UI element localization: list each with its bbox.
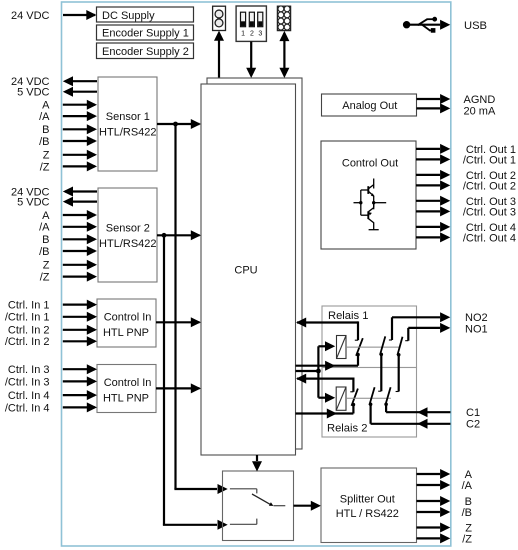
input block U5 Sensor 1 HTL/RS422: [98, 77, 157, 171]
svg-text:Analog Out: Analog Out: [342, 100, 397, 112]
label Ctrl. In 2: [8, 325, 50, 337]
input block U6 Sensor 2 HTL/RS422: [98, 188, 157, 282]
label Sensor2 Z: [43, 260, 50, 272]
CPU block U4: [201, 84, 296, 455]
node Sensor1 bus junction: [173, 122, 178, 127]
switch S2 blade: [252, 494, 285, 506]
svg-text:/B: /B: [39, 246, 49, 258]
switch block S2 signal changeover: [223, 471, 294, 541]
svg-text:/Ctrl. Out 4: /Ctrl. Out 4: [463, 232, 516, 244]
svg-text:NO1: NO1: [465, 323, 488, 335]
wire AGND output: [417, 94, 451, 104]
label Sensor2 24 VDC: [11, 186, 50, 198]
power block U1 DC Supply: [97, 7, 194, 22]
label 24 VDC top: [11, 10, 50, 22]
contact K1 drive blade: [356, 338, 363, 356]
label /Ctrl. In 4: [5, 402, 50, 414]
connector J1 2-pin: [213, 6, 226, 30]
wire K1 coil-contact link: [346, 346, 400, 348]
svg-text:CPU: CPU: [234, 265, 257, 277]
wire CPU to K1 contact (feedback): [296, 318, 358, 341]
wire Control In 1/2 to CPU: [156, 317, 201, 327]
wires Control In 3/4 inputs: [63, 364, 97, 412]
label Splitter /A: [462, 480, 473, 492]
label Sensor2 /Z: [40, 272, 50, 284]
svg-text:3: 3: [258, 31, 262, 38]
svg-text:/Ctrl. Out 1: /Ctrl. Out 1: [463, 154, 516, 166]
svg-text:USB: USB: [464, 20, 487, 32]
svg-text:Control Out: Control Out: [342, 157, 398, 169]
relay block K1 Relais 1: [322, 306, 417, 368]
label /Ctrl. Out 2: [463, 180, 516, 192]
switch S2 upper contact: [230, 489, 257, 494]
svg-text:5 VDC: 5 VDC: [17, 197, 49, 209]
wire 24VDC input to DC Supply: [63, 10, 97, 20]
label Ctrl. Out 2: [466, 170, 516, 182]
label C2: [466, 419, 480, 431]
svg-text:2: 2: [250, 31, 254, 38]
CPU block shadow: [207, 78, 302, 449]
label /Ctrl. In 3: [5, 376, 50, 388]
label Ctrl. In 4: [8, 390, 50, 402]
wires Sensor 1 signal inputs A../Z: [63, 100, 97, 172]
label NO2: [465, 312, 488, 324]
svg-text:B: B: [42, 234, 49, 246]
output block U10 Control Out: [321, 141, 416, 249]
label 20 mA: [464, 105, 496, 117]
svg-text:Control In: Control In: [104, 377, 152, 389]
svg-text:Ctrl. In 2: Ctrl. In 2: [8, 325, 50, 337]
label Splitter A: [465, 469, 473, 481]
label /Ctrl. Out 3: [463, 206, 516, 218]
label NO1: [465, 323, 488, 335]
svg-text:HTL/RS422: HTL/RS422: [99, 238, 156, 250]
svg-text:/B: /B: [39, 136, 49, 148]
svg-text:Splitter Out: Splitter Out: [340, 494, 395, 506]
wire NO2 output: [389, 312, 450, 340]
contact K2 drive blade: [352, 389, 358, 407]
svg-text:Encoder Supply 2: Encoder Supply 2: [102, 46, 189, 58]
device boundary frame: [62, 2, 451, 546]
svg-text:/Ctrl. In 2: /Ctrl. In 2: [5, 336, 50, 348]
svg-text:/Ctrl. Out 2: /Ctrl. Out 2: [463, 180, 516, 192]
svg-text:/Z: /Z: [40, 161, 50, 173]
svg-text:/A: /A: [39, 111, 50, 123]
DIP switch S1 (1 2 3): [236, 6, 266, 41]
label USB: [464, 20, 487, 32]
svg-text:24 VDC: 24 VDC: [11, 10, 50, 22]
label /Ctrl. In 2: [5, 336, 50, 348]
label Sensor1 Z: [43, 150, 50, 162]
svg-text:/Ctrl. In 3: /Ctrl. In 3: [5, 376, 50, 388]
svg-text:HTL PNP: HTL PNP: [103, 393, 149, 405]
node coil feed junction: [316, 369, 321, 374]
label Ctrl. Out 3: [466, 196, 516, 208]
svg-text:1: 1: [241, 31, 245, 38]
label Sensor1 5 VDC: [17, 87, 49, 99]
label Splitter Z: [465, 523, 472, 535]
svg-text:B: B: [42, 124, 49, 136]
relay coil K2: [336, 387, 346, 410]
svg-text:A: A: [42, 100, 50, 112]
svg-text:Ctrl. In 1: Ctrl. In 1: [8, 300, 50, 312]
relay block K2 Relais 2: [322, 368, 417, 438]
label Splitter /B: [462, 507, 472, 519]
output block U9 Analog Out: [322, 94, 417, 116]
relay coil K1: [337, 336, 347, 359]
label Ctrl. Out 1: [466, 144, 516, 156]
svg-text:Z: Z: [43, 260, 50, 272]
contact K1b blade: [397, 337, 403, 357]
connector J2 8-pin: [277, 6, 290, 31]
input block U7 Control In HTL PNP (1/2): [97, 299, 156, 347]
svg-text:Z: Z: [43, 150, 50, 162]
svg-text:Sensor 2: Sensor 2: [106, 223, 150, 235]
svg-text:C2: C2: [466, 419, 480, 431]
label Splitter B: [465, 496, 472, 508]
contact K1 drive: fixed terminal tick: [355, 339, 358, 341]
wire K1 contact to CPU: [296, 355, 359, 371]
label Sensor1 /A: [39, 111, 50, 123]
wires Sensor 1 supply outputs (24VDC,5VDC): [63, 76, 97, 97]
label /Ctrl. In 1: [5, 312, 50, 324]
wires Ctrl. Out 1..4 outputs: [416, 144, 450, 243]
contact K2 drive: fixed terminal tick: [350, 391, 353, 393]
svg-text:/B: /B: [462, 507, 472, 519]
wire J1 to CPU: [214, 31, 224, 78]
svg-text:20 mA: 20 mA: [464, 105, 496, 117]
label Ctrl. Out 4: [466, 222, 516, 234]
svg-text:/Z: /Z: [40, 272, 50, 284]
label Sensor1 B: [42, 124, 49, 136]
svg-text:/Z: /Z: [462, 533, 472, 545]
node Sensor2 bus junction: [162, 233, 167, 238]
contact K2b blade: [384, 387, 390, 406]
label Sensor1 /Z: [40, 161, 50, 173]
label Sensor2 /A: [39, 222, 50, 234]
label AGND: [464, 94, 496, 106]
svg-text:/Ctrl. In 4: /Ctrl. In 4: [5, 402, 50, 414]
label Ctrl. In 3: [8, 364, 50, 376]
wire K2 contact to CPU: [296, 405, 354, 419]
wire Sensor1 bus to changeover switch: [174, 124, 227, 494]
wire CPU to S2: [252, 455, 262, 472]
wires Splitter Out signals A../Z: [417, 469, 451, 543]
svg-text:HTL / RS422: HTL / RS422: [336, 508, 399, 520]
wire S1 to CPU: [246, 42, 256, 79]
label Sensor2 5 VDC: [17, 197, 49, 209]
label Sensor1 24 VDC: [11, 76, 50, 88]
svg-text:AGND: AGND: [464, 94, 496, 106]
label Sensor1 /B: [39, 136, 49, 148]
label Splitter /Z: [462, 533, 472, 545]
wires Control In 1/2 inputs: [63, 300, 97, 347]
wire K2 coil-contact link: [346, 397, 391, 399]
svg-text:5 VDC: 5 VDC: [17, 87, 49, 99]
svg-text:Relais 1: Relais 1: [328, 310, 368, 322]
label Ctrl. In 1: [8, 300, 50, 312]
wire J2 to CPU (bidirectional): [279, 31, 289, 78]
wire Sensor 1 to CPU: [157, 119, 201, 129]
svg-text:HTL/RS422: HTL/RS422: [99, 127, 156, 139]
label Sensor2 A: [42, 210, 50, 222]
wire Control In 3/4 to CPU: [156, 383, 201, 393]
wire S2 to Splitter Out: [294, 501, 322, 511]
wire K1b to K2b fixed: [396, 355, 399, 392]
svg-text:/A: /A: [462, 480, 473, 492]
svg-text:/A: /A: [39, 222, 50, 234]
label Sensor2 /B: [39, 246, 49, 258]
svg-text:DC Supply: DC Supply: [102, 10, 155, 22]
label /Ctrl. Out 1: [463, 154, 516, 166]
power block U2 Encoder Supply 1: [97, 25, 194, 40]
svg-text:Ctrl. In 3: Ctrl. In 3: [8, 364, 50, 376]
wire CPU to K2 contact (feedback): [296, 374, 353, 392]
input block U8 Control In HTL PNP (3/4): [97, 365, 156, 413]
wire K1a to K2a fixed: [378, 354, 381, 391]
label Sensor1 A: [42, 100, 50, 112]
svg-text:Relais 2: Relais 2: [327, 423, 367, 435]
contact K1a blade: [380, 336, 386, 356]
wire Sensor 2 to CPU: [157, 230, 201, 240]
svg-text:/Ctrl. Out 3: /Ctrl. Out 3: [463, 206, 516, 218]
svg-text:A: A: [42, 210, 50, 222]
label /Ctrl. Out 4: [463, 232, 516, 244]
wire C1 common: [386, 404, 450, 417]
switch S2 lower contact: [230, 519, 257, 525]
label C1: [466, 407, 480, 419]
wires Sensor 2 supply outputs (24VDC,5VDC): [63, 187, 97, 207]
svg-text:C1: C1: [466, 407, 480, 419]
power block U3 Encoder Supply 2: [97, 43, 194, 59]
wire NO1 output: [405, 323, 450, 341]
USB port symbol: [403, 17, 450, 33]
wire Sensor2 bus to changeover switch: [163, 235, 228, 530]
svg-text:Control In: Control In: [104, 312, 152, 324]
wire CPU relay coil feed: [296, 341, 336, 402]
transistors Q1/Q2 push-pull output stage: [354, 179, 387, 230]
svg-text:/Ctrl. In 1: /Ctrl. In 1: [5, 312, 50, 324]
wire 20 mA output: [417, 103, 451, 113]
contact K2a blade: [369, 387, 375, 406]
wires Sensor 2 signal inputs A../Z: [63, 210, 97, 282]
svg-text:Encoder Supply 1: Encoder Supply 1: [102, 28, 189, 40]
output block U11 Splitter Out HTL / RS422: [321, 468, 417, 543]
svg-text:HTL PNP: HTL PNP: [103, 327, 149, 339]
wire C2 common: [371, 404, 451, 429]
svg-text:Ctrl. In 4: Ctrl. In 4: [8, 390, 50, 402]
svg-text:Sensor 1: Sensor 1: [106, 111, 150, 123]
label Sensor2 B: [42, 234, 49, 246]
